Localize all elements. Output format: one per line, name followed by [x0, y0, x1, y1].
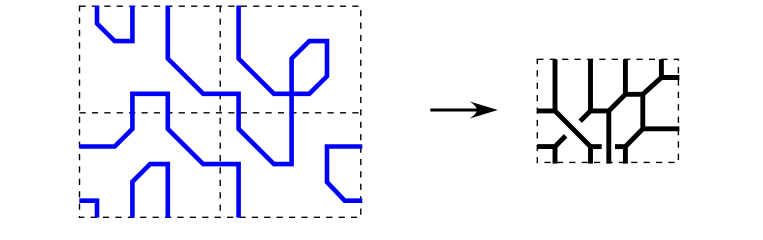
wire V5 — [640, 94, 645, 129]
wire H8 — [537, 144, 555, 149]
wire H4 — [661, 75, 679, 80]
wire H6 — [591, 144, 602, 149]
wire D2 — [580, 111, 590, 121]
wire H3 — [625, 92, 642, 97]
wire path E (bottom-left L) — [79, 201, 97, 218]
wire H1 — [537, 108, 555, 113]
wire H5 — [643, 126, 680, 131]
wire path C (left edge through arch to bottom) — [79, 94, 238, 218]
wire H2 — [591, 108, 609, 113]
wire V3 — [623, 59, 628, 94]
wire path B (long loop through both top cells) — [168, 6, 327, 165]
wire V2 — [588, 59, 593, 111]
black graph segments (right figure) — [537, 59, 679, 163]
wire path F (right-edge C shape) — [327, 147, 362, 201]
wire V9 — [623, 147, 628, 164]
wire path D (bottom doorway) — [132, 164, 167, 218]
wire D3 — [609, 94, 626, 111]
wire D5 — [625, 129, 642, 147]
wire V1 — [553, 59, 558, 111]
wire V6 — [606, 111, 611, 164]
dashed cell borders (left tiling, 2x2 grid) — [80, 6, 361, 217]
dashed border (right quotient figure) — [537, 59, 678, 162]
wire D4 — [643, 78, 662, 95]
wire V4 — [659, 59, 664, 77]
wire H7 — [615, 144, 625, 149]
blue pattern paths — [79, 6, 362, 218]
wire path A (top-left U) — [97, 6, 132, 42]
arrow — [430, 102, 498, 119]
wire V8 — [553, 147, 558, 164]
wire D1 — [555, 111, 591, 147]
wire V7 — [588, 147, 593, 164]
